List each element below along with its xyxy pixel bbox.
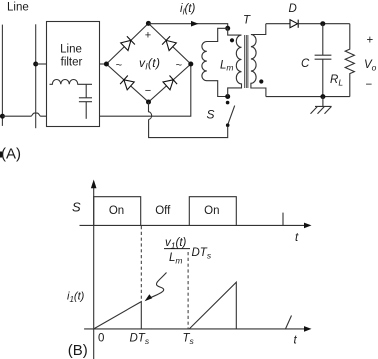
pulse 2 — [189, 197, 236, 226]
formula v1(t)/Lm DTs — [164, 237, 212, 266]
squiggle arrow — [148, 273, 167, 300]
node ground junction — [320, 94, 325, 99]
waveform S vertical axis — [93, 186, 95, 359]
svg-text:−: − — [145, 85, 151, 97]
slash tick next ramp — [286, 316, 292, 329]
wire secondary top to diode D — [266, 23, 290, 25]
ground — [311, 97, 332, 114]
wire output bottom rail — [266, 96, 350, 98]
diode bridge top-left — [121, 36, 135, 50]
capacitor inside line filter — [79, 84, 92, 119]
ramp 1 — [94, 302, 142, 329]
arrow current il(t) — [191, 21, 199, 27]
switch S bottom contact — [226, 123, 230, 127]
bridge rectifier frame — [106, 23, 190, 102]
pulse 1 — [94, 197, 141, 226]
svg-text:C: C — [301, 58, 310, 70]
svg-text:T: T — [243, 15, 251, 27]
wire switch to bottom rail — [149, 120, 228, 138]
line filter box — [47, 22, 100, 127]
diode bridge top-right — [162, 36, 176, 50]
waveform i time axis — [84, 328, 305, 330]
svg-text:D: D — [289, 3, 297, 15]
svg-text:filter: filter — [61, 57, 83, 69]
capacitor C — [315, 24, 332, 97]
svg-text:Line: Line — [7, 2, 29, 14]
wire line conductor 2 — [35, 24, 37, 128]
diode bridge bottom-right — [163, 76, 177, 90]
svg-text:+: + — [367, 35, 374, 47]
polarity dot primary — [230, 38, 234, 42]
clipped mark left edge — [0, 152, 2, 158]
diode bridge bottom-left — [120, 76, 134, 90]
wire top AC feed to filter — [36, 63, 47, 65]
svg-text:~: ~ — [176, 60, 182, 72]
transformer T primary winding — [228, 28, 242, 96]
diode D — [290, 20, 298, 28]
svg-text:Line: Line — [60, 44, 82, 56]
node output top — [320, 21, 325, 26]
switch S blade — [228, 106, 235, 125]
node bridge top — [146, 21, 151, 26]
dashed line Ts — [187, 252, 189, 329]
wire bridge output top with current arrow — [148, 24, 227, 29]
wire bottom AC feed with hop over line 2 — [2, 113, 46, 116]
svg-text:il(t): il(t) — [180, 3, 195, 17]
svg-text:(B): (B) — [68, 342, 88, 359]
node bridge bottom — [146, 100, 151, 105]
resistor RL — [345, 24, 354, 97]
svg-text:+: + — [145, 30, 151, 42]
svg-text:(A): (A) — [1, 145, 21, 162]
svg-text:vl(t): vl(t) — [139, 56, 160, 72]
svg-text:On: On — [109, 205, 124, 217]
wire line conductor 1 — [1, 25, 3, 126]
switch S top contact — [226, 101, 230, 105]
wire filter output bottom to bridge right leg — [100, 64, 191, 116]
inductor Lm — [202, 28, 228, 96]
svg-text:~: ~ — [116, 60, 122, 72]
ramp 2 — [189, 282, 236, 329]
svg-text:Off: Off — [155, 205, 171, 217]
node bridge left — [104, 62, 109, 67]
svg-text:S: S — [72, 200, 81, 215]
polarity dot secondary — [259, 79, 263, 83]
svg-text:0: 0 — [98, 333, 104, 345]
wire filter output top to bridge — [100, 63, 107, 65]
transformer core — [245, 35, 248, 88]
dashed line DTs — [140, 226, 142, 302]
node junction on line 2 — [33, 62, 38, 67]
svg-text:−: − — [366, 79, 373, 91]
transformer T secondary winding — [251, 24, 266, 97]
node bridge right — [188, 62, 193, 67]
node B bottom of Lm — [225, 94, 230, 99]
svg-text:S: S — [207, 108, 215, 122]
node A top of Lm — [225, 26, 230, 31]
waveform S time axis — [80, 224, 306, 226]
inductor inside line filter — [50, 80, 93, 85]
tick next period — [282, 213, 284, 226]
wire diode to output node — [298, 23, 350, 25]
node junction on line 1 — [0, 114, 5, 119]
wire bridge bottom with hop — [149, 102, 152, 120]
svg-text:On: On — [204, 205, 219, 217]
